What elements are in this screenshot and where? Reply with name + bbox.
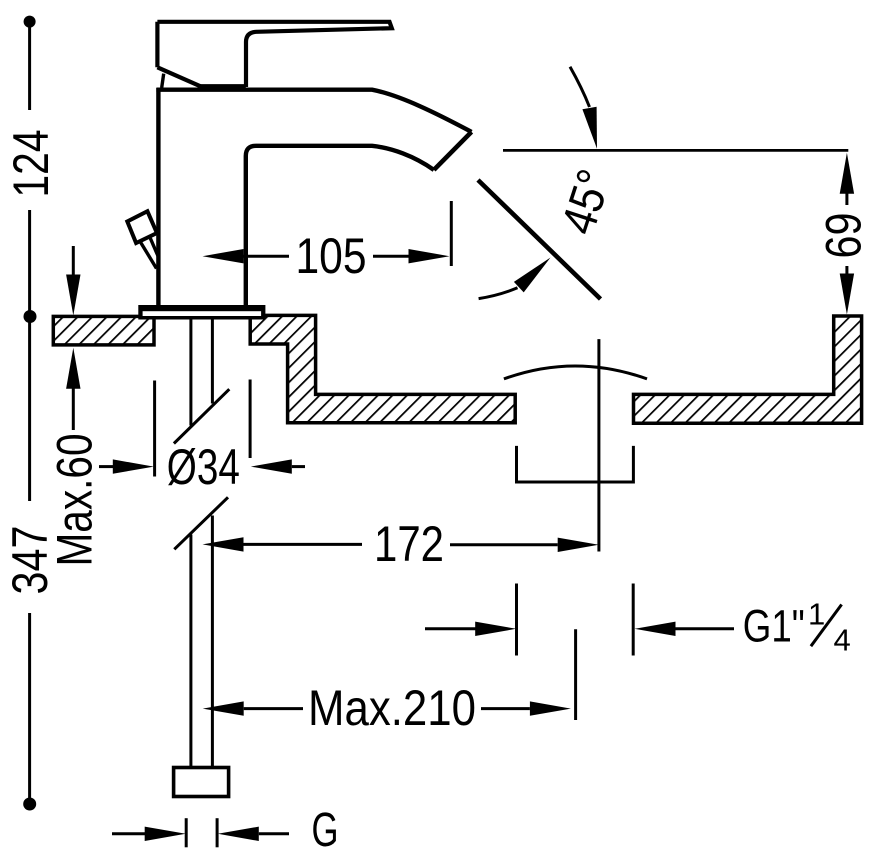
dimension 172 line right segment [450,543,558,546]
handle base left edge [155,22,159,68]
dimension Max.210 line left segment [244,707,303,710]
svg-text:G1": G1" [743,601,805,652]
side tab square [127,211,157,243]
dimension Ø34 left tail [99,465,114,468]
dimension Max.210 left arrow [203,701,244,715]
dimension 347 line lower segment [28,613,31,798]
svg-text:Max.60: Max.60 [47,434,103,567]
dimension 172 right arrow [558,538,599,552]
dimension 105 right extension line [450,201,453,266]
faucet supply pipe left line upper [189,320,192,426]
dimension 347 reference dot bottom [23,798,36,811]
svg-text:172: 172 [374,516,444,572]
dimension G left bar [185,818,188,847]
svg-text:Ø34: Ø34 [167,439,240,495]
faucet supply pipe right line upper [211,320,214,404]
svg-text:Max.210: Max.210 [308,680,476,736]
dimension Max.210 right arrow [530,701,571,715]
horizontal datum line [503,149,848,152]
pipe break slash upper [174,389,229,443]
angle leader bottom curve [479,288,518,299]
pipe break slash lower [174,497,228,549]
handle base bottom thick line [200,84,246,88]
basin right section with wall (hatched) [634,316,862,423]
dimension Ø34 right arrow [251,459,292,473]
dimension 105 line right segment [373,255,409,258]
dimension Max.60 lower line [72,385,75,430]
dimension Max.60 lower arrow (up) [66,348,80,389]
water stream 45 deg line [478,180,601,299]
dimension G1 1/4 right arrow [635,622,676,636]
supply hose end block [174,768,229,797]
dimension Max.60 upper arrow (down) [66,275,80,316]
dimension Ø34 left arrow [113,459,154,473]
svg-text:4: 4 [834,623,851,658]
side tab stem line a [141,242,157,268]
dimension 124 line lower segment [28,210,31,501]
angle leader top curve [570,67,590,107]
dimension Ø34 right extension line [249,380,252,459]
dimension 124 reference dot top [24,16,36,28]
svg-text:1: 1 [808,597,825,632]
dimension 172 line left segment [244,543,363,546]
dimension Ø34 right tail [292,465,305,468]
side tab stem line b [150,238,158,256]
drain stub U outline [517,446,634,482]
handle base short line [162,74,164,88]
dimension 124 line upper segment [28,26,31,110]
dimension G1 1/4 right extension line [632,584,635,656]
svg-text:69: 69 [816,213,872,259]
fraction slash [811,605,842,647]
drain center line lower (Max.210 extension) [574,629,577,720]
drain center line upper [597,339,600,551]
dimension G1 1/4 left tail [425,627,477,630]
dimension 69 top arrow (up) [840,153,854,194]
dimension 69 upper line [845,190,848,205]
dimension 69 bottom arrow (down) [840,274,854,315]
dimension 105 right arrow [409,249,450,263]
faucet supply pipe right line lower [211,516,214,767]
spout end cut face (45 deg) [434,132,472,170]
basin water surface arc [504,366,647,379]
dimension 172 left arrow [203,537,244,551]
dimension G left arrow [145,827,186,841]
dimension 105 line left segment [244,255,290,258]
dimension 69 lower line [845,266,848,277]
handle base diagonal [157,67,200,86]
dimension G1 1/4 right tail [676,627,735,630]
svg-text:124: 124 [3,130,59,198]
dimension Max.60 upper line [72,246,75,278]
dimension G1 1/4 left arrow [475,622,516,636]
countertop left slab (hatched) [53,316,154,345]
svg-text:105: 105 [296,228,367,284]
dimension Ø34 left extension line [153,381,156,477]
faucet body left edge [156,88,160,305]
faucet base plate [138,305,265,320]
handle lever [157,22,391,87]
dimension reference dot at counter level [24,310,37,323]
svg-text:G: G [312,804,339,857]
dimension G right bar [216,818,219,847]
dimension G1 1/4 left extension line [515,584,518,656]
faucet supply pipe left line lower [189,535,192,767]
dimension 105 left arrow [203,249,244,263]
basin left step section (hatched) [250,315,515,422]
dimension G right arrow [218,827,259,841]
spout inner curve and body right edge [246,146,434,305]
angle top arrow [582,107,597,149]
faucet body top line and spout outer curve [156,90,471,132]
dimension G left tail [112,832,146,835]
angle bottom arrow [514,258,551,293]
dimension Max.210 line right segment [481,707,530,710]
dimension G right tail [259,832,289,835]
